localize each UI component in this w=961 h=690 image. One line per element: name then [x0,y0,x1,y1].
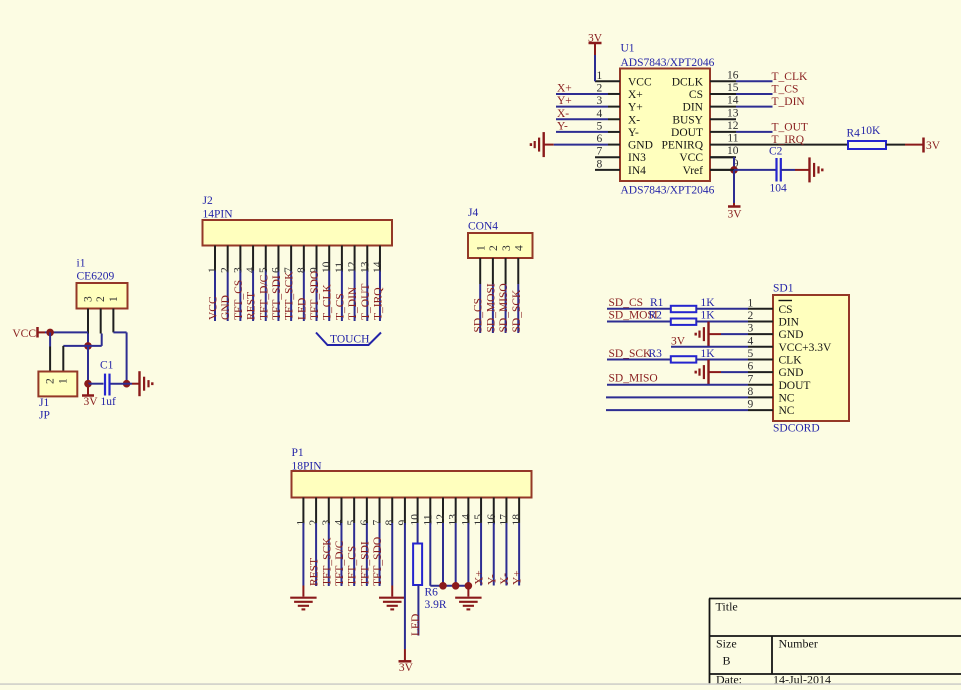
P1 pin 16 stub [493,498,495,524]
svg-text:5: 5 [597,120,603,132]
J2 pin 8 wire [303,271,305,322]
svg-text:R1: R1 [650,297,664,309]
svg-text:4: 4 [333,520,345,526]
svg-text:1: 1 [207,267,219,273]
svg-text:2: 2 [597,82,603,94]
svg-text:4: 4 [748,335,754,347]
P1 pin9 wire to 3V [404,523,406,649]
P1 pin 15 wire [480,523,482,586]
svg-text:1: 1 [58,378,70,384]
wire R1 to SD1 pin1 [696,308,748,310]
svg-text:Y-: Y- [557,120,568,132]
P1 pin 3 stub [328,498,330,524]
svg-text:8: 8 [384,520,396,526]
svg-text:3V: 3V [926,140,941,152]
U1 right pin 12 stub [710,131,736,133]
U1 right pin 15 stub [710,93,736,95]
svg-text:3V: 3V [671,336,686,348]
SD1 pin 3 stub [748,333,773,335]
J2 pin 1 wire [214,271,216,322]
svg-text:5: 5 [258,267,270,273]
svg-text:T_CLK: T_CLK [772,71,808,83]
P1 pin 6 wire [366,523,368,586]
svg-text:3: 3 [232,267,244,273]
svg-text:C2: C2 [769,146,783,158]
SD1 pin 7 stub [748,384,773,386]
wire i1 pin1 down [113,331,126,333]
wire pin9 to C2 [734,169,776,171]
P1 pin11 wire [429,523,431,586]
P1 pin8 wire to ground [391,523,393,586]
wire 3V to U1 pin1 [594,55,596,81]
svg-text:REST: REST [246,292,258,320]
svg-text:2: 2 [308,520,320,526]
svg-text:10: 10 [727,145,739,157]
svg-text:Title: Title [716,600,738,614]
svg-text:LED: LED [410,614,422,636]
U1 pin 5 wire [556,131,608,133]
svg-text:GND: GND [220,295,232,320]
svg-text:2: 2 [220,267,232,273]
J2 pin 10 wire [328,271,330,322]
svg-text:15: 15 [727,82,739,94]
CS overline [779,300,793,302]
svg-text:SD_SCK: SD_SCK [609,348,653,360]
J2 pin 1 stub [214,246,216,271]
svg-text:11: 11 [422,514,434,525]
svg-text:VCC: VCC [208,296,220,320]
svg-text:8: 8 [597,158,603,170]
svg-text:3: 3 [321,520,333,526]
svg-text:CLK: CLK [779,354,803,366]
power 3V below C1 node [87,384,89,396]
wire pin9 junction to 3V [733,170,735,203]
ground right of C1 [138,371,140,396]
P1 pin 18 wire [518,523,520,586]
svg-text:BUSY: BUSY [672,114,703,126]
ground at P1 pin8 [379,597,405,599]
wire T_IRQ to R4 [736,144,848,146]
P1 pin1 wire to ground [302,523,304,586]
P1 pin 6 stub [366,498,368,524]
svg-text:CON4: CON4 [468,221,498,233]
resistor R1 [671,306,697,312]
P1 pin 13 stub [455,498,457,524]
svg-text:14PIN: 14PIN [203,209,234,221]
svg-text:Y+: Y+ [557,95,572,107]
P1 pin 2 wire [315,523,317,586]
svg-text:U1: U1 [621,43,635,55]
svg-text:J2: J2 [203,195,213,207]
U1 pin 4 wire [556,118,608,120]
svg-text:SD_SCK: SD_SCK [511,289,523,333]
svg-text:7: 7 [597,146,603,158]
U1 pin 7 stub [595,156,620,158]
P1 pin 1 stub [302,498,304,524]
svg-text:Vref: Vref [683,165,704,177]
J2 pin 13 stub [366,246,368,271]
junction at C1 right [123,380,131,388]
svg-text:16: 16 [727,69,739,81]
SD1 pin 1 stub [748,308,773,310]
junction at P1 pin 12 [439,582,447,590]
J2 pin 3 wire [239,271,241,322]
wire SD_SCK to R3 [607,358,671,360]
connector J1 body [38,372,77,397]
J2 pin 11 wire [341,271,343,322]
svg-text:18: 18 [511,514,523,526]
svg-text:TFT_D/C: TFT_D/C [334,540,346,586]
J2 pin 13 wire [366,271,368,322]
P1 pin 5 wire [353,523,355,586]
wire SD_CS to R1 [607,308,671,310]
svg-text:IN4: IN4 [628,165,646,177]
wire U1 pin 12 [736,131,773,133]
P1 pin 17 stub [505,498,507,524]
J2 pin 3 stub [239,246,241,271]
P1 pin 7 wire [379,523,381,586]
svg-text:6: 6 [748,361,754,373]
capacitor C2 [775,158,777,182]
svg-text:VCC: VCC [628,76,652,88]
svg-text:14: 14 [372,261,384,273]
wire SD_MISO to SD1 pin7 [607,384,748,386]
SD1 pin 9 stub [748,409,773,411]
J2 pin 8 stub [303,246,305,271]
svg-text:17: 17 [498,514,510,526]
svg-text:1: 1 [108,296,120,302]
J4 pin 1 wire [479,284,481,333]
svg-text:13: 13 [448,514,460,526]
svg-text:VCC+3.3V: VCC+3.3V [779,342,833,354]
P1 pin 2 stub [315,498,317,524]
U1 right pin 11 stub [710,144,736,146]
svg-text:3V: 3V [84,396,99,408]
window bottom edge [0,683,961,685]
svg-text:T_DIN: T_DIN [347,286,359,320]
ground right of C2 [808,157,810,182]
svg-text:GND: GND [779,329,804,341]
svg-text:4: 4 [597,108,603,120]
svg-text:2: 2 [45,378,57,384]
svg-text:5: 5 [346,520,358,526]
J4 pin 2 wire [492,284,494,333]
wire R2 to SD1 pin2 [696,320,748,322]
P1 pin 12 wire [442,523,444,586]
svg-text:T_CS: T_CS [334,293,346,320]
svg-text:REST: REST [309,558,321,586]
ground at SD1 pin3 [707,322,709,347]
J2 pin 10 stub [328,246,330,271]
svg-text:VCC: VCC [679,152,703,164]
J2 pin 6 stub [277,246,279,271]
svg-text:X-: X- [557,108,569,120]
svg-text:i1: i1 [77,258,86,270]
svg-text:TFT_CS: TFT_CS [347,546,359,586]
svg-text:IN3: IN3 [628,152,646,164]
P1 pin10 wire to R6 [417,523,419,544]
svg-text:6: 6 [359,520,371,526]
svg-text:T_IRQ: T_IRQ [772,134,805,146]
U1 right pin 10 stub [710,156,736,158]
wire ground to SD1 pin3 [709,333,722,335]
svg-text:3V: 3V [399,662,414,674]
svg-text:5: 5 [748,348,754,360]
wire C1 to ground [127,383,132,385]
svg-text:TFT_D/C: TFT_D/C [258,274,270,320]
svg-text:SD1: SD1 [773,283,794,295]
svg-text:Y+: Y+ [628,102,643,114]
svg-text:11: 11 [334,262,346,273]
svg-text:14: 14 [727,95,739,107]
svg-text:X+: X+ [474,570,486,585]
U1 pin 1 stub [595,80,620,82]
U1 right pin 13 stub [710,118,736,120]
svg-text:10: 10 [321,261,333,273]
VCC port bar [36,327,39,338]
svg-text:16: 16 [486,514,498,526]
wire R4 to 3V [886,144,905,146]
resistor R4 [848,141,886,149]
svg-text:TFT_CS: TFT_CS [233,280,245,320]
P1 pin 9 stub [404,498,406,524]
resistor R6 [413,544,422,586]
ground at P1 pin1 [290,597,316,599]
svg-text:12: 12 [347,261,359,273]
SD1 pin 4 stub [748,346,773,348]
J2 pin 2 wire [227,271,229,322]
P1 pin 7 stub [379,498,381,524]
J2 pin 14 stub [379,246,381,271]
resistor R3 [671,356,697,362]
P1 pin 3 wire [328,523,330,586]
power 3V below P1 pin9 [399,660,412,663]
power 3V below U1 pin9 [728,205,741,208]
svg-text:ADS7843/XPT2046: ADS7843/XPT2046 [621,185,715,197]
junction at P1 pin 14 [465,582,473,590]
svg-text:1K: 1K [701,297,716,309]
wire SD_MOSI to R2 [607,320,671,322]
svg-text:11: 11 [727,133,738,145]
U1 right pin 14 stub [710,106,736,108]
P1 pin 11 stub [429,498,431,524]
svg-text:LED: LED [296,298,308,320]
svg-text:15: 15 [473,514,485,526]
P1 pin 16 wire [493,523,495,586]
connector J2 body [203,220,393,246]
svg-text:DOUT: DOUT [779,380,811,392]
P1 pin 14 wire [467,523,469,586]
ground at U1 pin6 GND [543,132,545,157]
svg-text:R4: R4 [847,128,861,140]
svg-text:SD_MISO: SD_MISO [609,373,658,385]
wire 3V to SD1 pin4 [671,346,748,348]
wire i1 pin3 down [87,334,89,346]
svg-text:12: 12 [727,120,739,132]
wire U1 pin10 to pin9 [710,156,734,158]
wire U1 pin 15 [736,93,773,95]
wire VCC to i1 pin3 [38,331,46,333]
svg-text:2: 2 [488,245,500,251]
svg-text:P1: P1 [292,447,304,459]
regulator i1 body [77,283,128,309]
svg-text:4: 4 [514,245,526,251]
J4 pin 3 wire [505,284,507,333]
svg-text:R6: R6 [425,587,439,599]
J2 pin 12 wire [354,271,356,322]
SD1 pin 2 stub [748,320,773,322]
i1 pin 3 stub [87,309,89,334]
svg-text:X-: X- [499,573,511,585]
svg-text:J4: J4 [468,207,478,219]
svg-text:R3: R3 [649,348,663,360]
P1 pin 4 wire [340,523,342,586]
wire J1 pin2 up [49,332,51,346]
P1 pin 15 stub [480,498,482,524]
U1 pin 2 wire [556,93,608,95]
P1 pin 14 stub [467,498,469,524]
svg-text:SD_CS: SD_CS [609,297,644,309]
J2 pin 12 stub [354,246,356,271]
svg-text:104: 104 [770,183,788,195]
svg-text:SDCORD: SDCORD [773,423,820,435]
wire ground to U1 pin6 [544,144,554,146]
J2 pin 9 wire [316,271,318,322]
J2 pin 4 stub [252,246,254,271]
svg-text:3V: 3V [728,209,743,221]
J4 pin 4 wire [517,284,519,333]
P1 pin 4 stub [340,498,342,524]
svg-text:1: 1 [748,297,754,309]
P1 pin 10 stub [417,498,419,524]
J2 pin 6 wire [277,271,279,322]
junction at C1 left [84,380,92,388]
svg-text:4: 4 [245,267,257,273]
svg-text:GND: GND [628,140,653,152]
svg-text:9: 9 [748,399,754,411]
svg-text:1: 1 [597,70,603,82]
svg-text:6: 6 [597,133,603,145]
wire node A horizontal [63,345,101,347]
SD1 pin 6 stub [748,371,773,373]
svg-text:13: 13 [359,261,371,273]
wire ground to SD1 pin6 [709,371,722,373]
J4 pin 4 stub [517,258,519,284]
svg-text:X+: X+ [557,82,572,94]
svg-text:TFT_SDI: TFT_SDI [359,541,371,586]
J2 pin 2 stub [227,246,229,271]
svg-text:Size: Size [716,637,737,651]
svg-text:10K: 10K [861,125,882,137]
J2 pin 5 stub [265,246,267,271]
svg-text:T_DIN: T_DIN [772,96,806,108]
svg-text:VCC: VCC [12,328,36,340]
svg-text:Y-: Y- [486,574,498,585]
TOUCH bracket [316,333,381,346]
svg-text:B: B [723,654,731,668]
ground at P1 pin14 [455,597,481,599]
svg-text:DOUT: DOUT [671,127,703,139]
P1 pin 12 stub [442,498,444,524]
svg-text:J1: J1 [39,397,49,409]
svg-text:8: 8 [748,386,754,398]
svg-text:14-Jul-2014: 14-Jul-2014 [773,673,831,686]
svg-text:R2: R2 [649,310,663,322]
svg-text:13: 13 [727,107,739,119]
SD1 pin 8 stub [748,396,773,398]
svg-text:9: 9 [397,520,409,526]
svg-text:8: 8 [296,267,308,273]
svg-text:GND: GND [779,367,804,379]
svg-text:10: 10 [410,514,422,526]
J2 pin 7 stub [290,246,292,271]
svg-text:T_CS: T_CS [772,83,799,95]
svg-text:14: 14 [460,514,472,526]
J4 pin 3 stub [505,258,507,284]
P1 pin 13 wire [455,523,457,586]
svg-text:CS: CS [779,304,793,316]
J4 pin 2 stub [492,258,494,284]
svg-text:1: 1 [476,245,488,251]
svg-text:12: 12 [435,514,447,526]
P1 ground stem [467,586,469,597]
U1 pin9 stub [710,169,734,171]
J2 pin 9 stub [316,246,318,271]
connector P1 body [292,471,532,498]
U1 pin 8 stub [595,169,620,171]
svg-text:X+: X+ [628,89,643,101]
svg-text:Number: Number [779,637,818,651]
i1 pin 2 stub [100,309,102,334]
svg-text:3: 3 [748,323,754,335]
junction VCC / J1 pin2 [46,329,54,337]
P1 pin 5 stub [353,498,355,524]
ground at SD1 pin6 [707,360,709,385]
svg-text:TFT_SCK: TFT_SCK [321,537,333,586]
wire i1 pin2 down [101,334,103,346]
J2 pin 7 wire [290,271,292,322]
J2 pin 14 wire [379,271,381,322]
svg-text:3.9R: 3.9R [425,599,447,611]
svg-text:C1: C1 [100,360,114,372]
P1 pin 18 stub [518,498,520,524]
svg-text:SD_MISO: SD_MISO [498,283,510,332]
svg-text:X-: X- [628,114,640,126]
U1 right pin 9 stub [710,169,736,171]
capacitor C1 [88,383,104,385]
wire below R6 [417,585,419,636]
svg-text:CE6209: CE6209 [77,271,115,283]
svg-text:3: 3 [597,95,603,107]
svg-text:DCLK: DCLK [672,76,704,88]
svg-text:TOUCH: TOUCH [330,334,369,346]
power 3V right of R4 [922,138,925,153]
connector J4 body [468,233,533,258]
junction at U1 pin9 [730,166,738,174]
J2 pin 5 wire [265,271,267,322]
svg-text:T_CLK: T_CLK [322,284,334,320]
resistor R2 [671,319,697,325]
svg-text:7: 7 [748,373,754,385]
svg-text:TFT_SCK: TFT_SCK [284,271,296,320]
junction at P1 pin 13 [452,582,460,590]
svg-text:SD_CS: SD_CS [473,298,485,333]
J2 pin 11 stub [341,246,343,271]
SD1 pin 5 stub [748,358,773,360]
wire J1 pin1 stub [62,346,64,372]
svg-text:6: 6 [270,267,282,273]
title block frame [709,598,961,600]
